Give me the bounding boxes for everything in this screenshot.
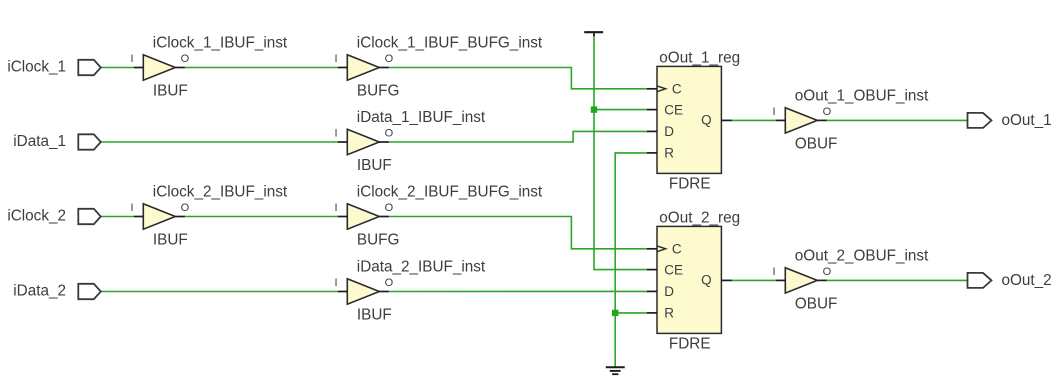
pin stub U2 D [647, 290, 657, 292]
flip-flop U1 FDRE oOut_1_reg [657, 66, 721, 173]
svg-text:O: O [181, 202, 190, 214]
svg-text:O: O [823, 106, 832, 118]
svg-text:I: I [335, 127, 338, 139]
wire iClock_1 port to IBUF [101, 67, 134, 69]
pin stub U1 C [647, 88, 657, 90]
svg-text:oOut_1_OBUF_inst: oOut_1_OBUF_inst [795, 88, 929, 105]
wire iData_2 port to IBUF [101, 291, 338, 293]
pin stub IBUF iClock_1 input [134, 67, 144, 69]
buffer OBUF oOut_2 [785, 268, 817, 293]
pin stub IBUF iClock_2 input [134, 216, 144, 218]
svg-text:OBUF: OBUF [795, 295, 838, 312]
buffer IBUF iData_1 [347, 129, 379, 154]
buffer BUFG iClock_1 [347, 55, 379, 80]
buffer IBUF iData_2 [347, 279, 379, 304]
pin stub OBUF oOut_2 output [817, 279, 827, 281]
svg-text:O: O [385, 53, 394, 65]
svg-text:IBUF: IBUF [357, 306, 392, 323]
svg-text:Q: Q [701, 113, 712, 128]
wire iClock_1_IBUF_BUFG to U1 C [389, 68, 648, 89]
wire iClock_2_IBUF to BUFG [185, 216, 338, 218]
input port iData_1 [78, 134, 101, 149]
svg-text:iClock_1_IBUF_BUFG_inst: iClock_1_IBUF_BUFG_inst [357, 35, 543, 52]
wire R net to U2 R [615, 312, 647, 314]
svg-text:IBUF: IBUF [153, 82, 188, 99]
svg-text:C: C [672, 82, 682, 97]
svg-text:IBUF: IBUF [357, 157, 392, 174]
svg-text:CE: CE [664, 262, 683, 277]
svg-text:iData_1_IBUF_inst: iData_1_IBUF_inst [357, 109, 486, 126]
pin stub OBUF oOut_2 input [776, 279, 786, 281]
pin stub IBUF iData_1 input [338, 141, 348, 143]
wire U1 Q to OBUF [732, 119, 776, 121]
svg-text:I: I [131, 53, 134, 65]
svg-text:iData_1: iData_1 [13, 133, 66, 150]
pin stub BUFG iClock_1 output [379, 67, 389, 69]
svg-text:iClock_2_IBUF_inst: iClock_2_IBUF_inst [153, 184, 288, 201]
wire iClock_1_IBUF to BUFG [185, 67, 338, 69]
pin stub U1 Q [721, 119, 732, 121]
svg-text:R: R [664, 306, 674, 321]
svg-text:FDRE: FDRE [669, 176, 711, 193]
svg-text:BUFG: BUFG [357, 231, 400, 248]
pin stub IBUF iClock_2 output [175, 216, 185, 218]
svg-text:D: D [664, 284, 674, 299]
svg-text:iClock_2: iClock_2 [7, 208, 66, 225]
svg-text:oOut_2_reg: oOut_2_reg [659, 209, 740, 226]
pin stub U1 D [647, 130, 657, 132]
svg-text:BUFG: BUFG [357, 82, 400, 99]
wire iClock_2 port to IBUF [101, 216, 134, 218]
wire iClock_2_IBUF_BUFG to U2 C [389, 217, 648, 249]
pin stub U2 CE [647, 269, 657, 271]
flip-flop U2 FDRE oOut_2_reg [657, 226, 721, 333]
clock wedge U1 pin C [657, 86, 666, 92]
svg-text:OBUF: OBUF [795, 135, 838, 152]
svg-text:I: I [773, 266, 776, 278]
pin stub U1 R [647, 152, 657, 154]
pin stub OBUF oOut_1 output [817, 119, 827, 121]
svg-text:O: O [181, 53, 190, 65]
svg-text:I: I [335, 53, 338, 65]
buffer IBUF iClock_2 [143, 204, 175, 229]
svg-text:O: O [385, 202, 394, 214]
pin stub OBUF oOut_1 input [776, 119, 786, 121]
junction CE net at U1 [591, 106, 597, 112]
svg-text:oOut_2: oOut_2 [1002, 272, 1052, 289]
svg-text:Q: Q [701, 273, 712, 288]
junction R net at U2 [612, 310, 618, 316]
buffer BUFG iClock_2 [347, 204, 379, 229]
buffer IBUF iClock_1 [143, 55, 175, 80]
svg-text:FDRE: FDRE [669, 336, 711, 353]
pin stub BUFG iClock_2 output [379, 216, 389, 218]
svg-text:O: O [823, 266, 832, 278]
pin stub IBUF iData_2 input [338, 291, 348, 293]
svg-text:I: I [773, 106, 776, 118]
pin stub IBUF iClock_1 output [175, 67, 185, 69]
svg-text:oOut_1: oOut_1 [1002, 112, 1052, 129]
wire U1 R to GND vertical [615, 153, 647, 367]
svg-text:iData_2: iData_2 [13, 283, 66, 300]
svg-text:I: I [131, 202, 134, 214]
output port oOut_1 [968, 113, 992, 128]
input port iClock_2 [78, 209, 101, 224]
svg-text:D: D [664, 124, 674, 139]
svg-text:iClock_1: iClock_1 [7, 59, 66, 76]
pin stub IBUF iData_2 output [379, 291, 389, 293]
svg-text:C: C [672, 242, 682, 257]
svg-text:O: O [385, 127, 394, 139]
svg-text:CE: CE [664, 102, 683, 117]
svg-text:iData_2_IBUF_inst: iData_2_IBUF_inst [357, 259, 486, 276]
wire oOut_1_OBUF to port [827, 119, 968, 121]
clock wedge U2 pin C [657, 246, 666, 252]
svg-text:O: O [385, 277, 394, 289]
svg-text:iClock_1_IBUF_inst: iClock_1_IBUF_inst [153, 35, 288, 52]
output port oOut_2 [968, 273, 992, 288]
svg-text:iClock_2_IBUF_BUFG_inst: iClock_2_IBUF_BUFG_inst [357, 184, 543, 201]
svg-text:I: I [335, 277, 338, 289]
wire oOut_2_OBUF to port [827, 279, 968, 281]
pin stub IBUF iData_1 output [379, 141, 389, 143]
svg-text:oOut_1_reg: oOut_1_reg [659, 49, 740, 66]
pin stub BUFG iClock_2 input [338, 216, 348, 218]
wire U2 Q to OBUF [732, 279, 776, 281]
pin stub U1 CE [647, 109, 657, 111]
svg-text:R: R [664, 146, 674, 161]
svg-text:IBUF: IBUF [153, 231, 188, 248]
ground symbol GND [606, 367, 625, 374]
pin stub U2 C [647, 248, 657, 250]
wire iData_2_IBUF to U2 D [389, 290, 648, 292]
wire iData_1_IBUF to U1 D [389, 131, 648, 142]
svg-text:I: I [335, 202, 338, 214]
wire CE net to U1 CE [594, 109, 647, 111]
buffer OBUF oOut_1 [785, 108, 817, 133]
wire iData_1 port to IBUF [101, 141, 338, 143]
power symbol VCC [584, 32, 603, 36]
pin stub U2 R [647, 312, 657, 314]
wire VCC to CE net vertical [594, 33, 647, 269]
pin stub BUFG iClock_1 input [338, 67, 348, 69]
svg-text:oOut_2_OBUF_inst: oOut_2_OBUF_inst [795, 248, 929, 265]
input port iData_2 [78, 284, 101, 299]
pin stub U2 Q [721, 279, 732, 281]
input port iClock_1 [78, 60, 101, 75]
